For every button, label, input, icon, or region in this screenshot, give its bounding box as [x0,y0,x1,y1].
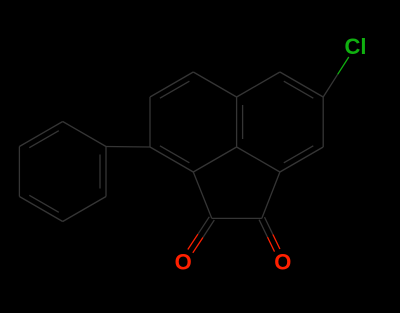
svg-text:O: O [274,250,291,275]
svg-text:Cl: Cl [345,34,367,59]
svg-text:O: O [175,250,192,275]
